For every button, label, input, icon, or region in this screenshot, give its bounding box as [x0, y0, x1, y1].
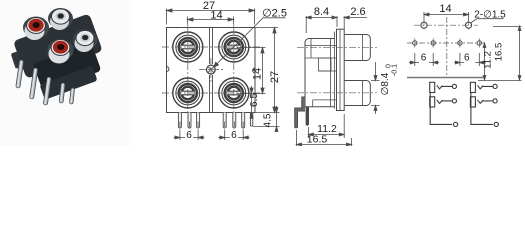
pin 2	[188, 113, 191, 129]
pin hole 4	[477, 41, 481, 45]
crosshair hole R	[468, 20, 470, 32]
jack top-left	[173, 32, 203, 62]
ground terminal A	[454, 122, 458, 126]
svg-text:14: 14	[210, 10, 222, 22]
centerline pins row	[407, 42, 487, 44]
crosshair pin 1	[414, 39, 416, 48]
right ext lines	[237, 28, 280, 127]
dim 6 bottom left	[174, 130, 205, 141]
terminal B1	[493, 84, 497, 88]
svg-text:∅8.4: ∅8.4	[380, 72, 391, 95]
footprint texts	[421, 3, 506, 69]
centerlines front view	[162, 24, 261, 118]
lever A1	[437, 85, 452, 89]
footprint dimensions	[409, 12, 522, 81]
pin 6	[242, 113, 245, 129]
pcb pin	[306, 107, 308, 125]
front view dimension texts	[186, 0, 287, 141]
dim 6 bottom right	[218, 130, 249, 141]
dim 14 top	[188, 17, 234, 25]
side view texts	[307, 6, 399, 146]
side view centerlines	[297, 47, 377, 93]
mounting hole right	[465, 22, 471, 28]
svg-text:-0.1: -0.1	[392, 64, 399, 76]
flange	[337, 29, 345, 110]
pin hole 3	[458, 41, 462, 45]
svg-text:16.5: 16.5	[494, 43, 505, 62]
ground terminal B	[494, 122, 498, 126]
right edge tab	[253, 68, 256, 73]
jack circles	[173, 32, 249, 108]
svg-text:6: 6	[186, 130, 192, 141]
centerline col right	[233, 24, 235, 118]
centerline row bottom	[162, 92, 261, 94]
dim 16.5 bottom	[297, 130, 352, 146]
terminal A1	[452, 84, 456, 88]
side lug pin	[250, 113, 252, 127]
svg-text:16.5: 16.5	[307, 134, 328, 146]
ground bus B	[471, 93, 493, 125]
svg-text:14: 14	[252, 68, 264, 80]
terminal A2	[452, 99, 456, 103]
pin 4	[59, 83, 65, 103]
svg-text:11.2: 11.2	[483, 51, 494, 69]
housing inner vertical 3	[330, 39, 332, 107]
jack symbol A2 contact	[430, 97, 435, 107]
crosshair hole L	[423, 20, 425, 32]
svg-text:14: 14	[439, 3, 451, 15]
crosshair pin 2	[432, 39, 434, 48]
barrel top rim	[362, 35, 364, 61]
crosshair pin 3	[459, 39, 461, 48]
svg-text:6.5: 6.5	[249, 93, 260, 107]
center hole	[205, 64, 216, 75]
jack bottom-left	[173, 78, 203, 108]
centerline top barrel	[297, 46, 377, 48]
barrel bottom	[344, 81, 370, 106]
left bracket tab	[11, 51, 24, 69]
connector block body	[13, 13, 112, 103]
mounting hole left	[421, 22, 427, 28]
dim 14	[424, 12, 469, 21]
dim 11.2 vertical	[483, 43, 486, 80]
dim dia8.4 right	[371, 62, 380, 114]
svg-text:2.6: 2.6	[350, 6, 365, 18]
dim 2.6	[344, 16, 367, 29]
dimensions front view	[167, 9, 286, 141]
dim 6 left	[409, 53, 439, 66]
housing inner vertical 2	[312, 100, 314, 107]
bracket	[295, 97, 305, 128]
side view dimensions	[297, 16, 380, 146]
center seam lines	[210, 28, 213, 113]
jack D white right	[73, 30, 98, 53]
dim 11.2 bottom	[308, 114, 344, 138]
housing inner line 4	[319, 70, 338, 72]
dim 14 right vertical	[261, 48, 264, 94]
housing inner line 2	[305, 57, 337, 59]
dim 27 top	[167, 9, 255, 25]
left edge tab	[166, 67, 169, 72]
pin 3	[197, 113, 200, 129]
housing inner line 1	[305, 45, 337, 47]
pin 1	[178, 113, 181, 129]
centerline center horizontal	[199, 69, 223, 71]
pin 3	[43, 77, 51, 105]
svg-text:2-∅1.5: 2-∅1.5	[474, 9, 506, 20]
housing inner box	[319, 58, 332, 71]
terminal B2	[493, 99, 497, 103]
svg-text:4.5: 4.5	[262, 113, 273, 127]
svg-text:6: 6	[421, 53, 427, 64]
pin 1	[16, 60, 24, 88]
centerline bottom barrel	[297, 92, 377, 94]
pin 4	[223, 113, 226, 129]
svg-text:∅2.5: ∅2.5	[262, 8, 287, 20]
jack top-right	[219, 32, 249, 62]
leader 2-dia1.5	[471, 19, 504, 23]
barrel top	[344, 35, 370, 61]
jack symbol B2 contact	[470, 97, 475, 107]
photo background	[0, 0, 132, 146]
dim 16.5 vertical	[478, 26, 522, 81]
lever B1	[478, 85, 493, 89]
jack symbol B1 contact	[470, 82, 475, 92]
svg-text:6: 6	[464, 53, 470, 64]
pin 2	[29, 68, 37, 99]
dim 6 right	[454, 53, 485, 66]
jack A red left	[23, 17, 49, 41]
ground bus A	[430, 93, 452, 125]
pin 5	[233, 113, 236, 129]
crosshair pin 4	[478, 39, 480, 48]
housing outline	[305, 39, 335, 107]
pin hole 2	[431, 41, 435, 45]
jack C red center	[48, 39, 74, 64]
lever B2	[478, 100, 493, 104]
svg-text:6: 6	[231, 130, 237, 141]
barrel bottom rim	[362, 81, 364, 106]
pin 5	[69, 88, 74, 104]
pin hole 1	[413, 41, 417, 45]
centerline center vertical	[210, 58, 212, 82]
leader dia2.5	[214, 18, 286, 67]
svg-text:8.4: 8.4	[314, 6, 329, 18]
pcb edge line	[407, 77, 484, 79]
centerline holes row	[414, 24, 478, 26]
front view pins	[178, 113, 252, 129]
dim 4.5 right	[275, 106, 278, 132]
housing inner line 3	[313, 99, 337, 101]
centerline mid vertical	[446, 17, 448, 76]
jack B white top	[48, 8, 73, 30]
lever A2	[437, 100, 452, 104]
flange inner line	[335, 29, 341, 110]
footprint centerlines	[407, 17, 487, 76]
svg-text:27: 27	[269, 71, 281, 83]
jack symbol A1 contact	[430, 82, 435, 92]
centerline col left	[187, 24, 189, 118]
housing inner vertical	[310, 39, 312, 59]
dim 27 right vertical	[273, 28, 276, 113]
jack bottom-right	[219, 78, 249, 108]
body outline	[167, 28, 256, 113]
dim 8.4	[306, 16, 337, 33]
centerline row top	[162, 46, 261, 48]
dim 6.5 right	[250, 86, 253, 119]
